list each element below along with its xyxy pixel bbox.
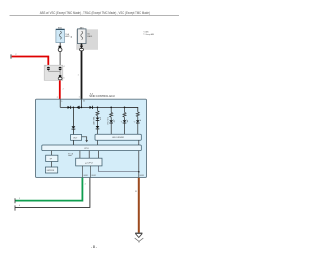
junction box internal wiring [48, 69, 60, 72]
svg-text:6: 6 [64, 77, 65, 79]
wire R red from page edge [10, 54, 12, 58]
svg-text:31: 31 [135, 191, 137, 193]
fuse F2 body [77, 29, 86, 44]
svg-text:LED DRIVER: LED DRIVER [112, 137, 125, 139]
CPU bar [42, 145, 142, 151]
svg-text:*1: *1 [121, 122, 123, 124]
svg-text:*2 : Except ABS: *2 : Except ABS [143, 33, 154, 36]
svg-text:4: 4 [64, 66, 65, 68]
connector below F2 [80, 46, 83, 49]
branch 3: LED [123, 120, 127, 122]
lead from pin 34 [80, 99, 82, 107]
gnd bus [99, 166, 139, 172]
svg-text:34: 34 [83, 101, 85, 103]
rail [60, 106, 138, 108]
diode D3 [90, 106, 93, 109]
svg-text:5: 5 [61, 101, 62, 103]
node n4 [110, 107, 112, 109]
branch 1: LED ABS warning light [96, 118, 100, 120]
svg-text:µ-CPU: µ-CPU [85, 163, 93, 165]
ground symbol [135, 232, 142, 234]
branch 4: LED [136, 120, 140, 122]
junction pin 1 [47, 67, 50, 70]
wire W-B thin [15, 178, 90, 208]
OUT box [71, 135, 82, 141]
LED driver box [95, 134, 141, 140]
node n3 [97, 107, 99, 109]
title rule [10, 15, 180, 17]
wire bar to IF box [51, 151, 53, 156]
svg-text:- 8 -: - 8 - [91, 245, 97, 249]
svg-text:SKID CONTROL ECU: SKID CONTROL ECU [89, 94, 115, 98]
svg-text:MAIN: MAIN [87, 35, 93, 38]
junction pin 2 [59, 67, 62, 70]
svg-text:GND1: GND1 [83, 175, 88, 177]
svg-text:VSC W/L: VSC W/L [108, 117, 110, 125]
svg-text:1: 1 [78, 74, 79, 76]
EEPROM box [45, 167, 57, 173]
svg-text:2: 2 [57, 97, 58, 99]
fuse F2 element [81, 31, 83, 39]
svg-text:*2: *2 [134, 122, 136, 124]
diode D2 [76, 106, 78, 109]
lead from pin 2 [59, 99, 61, 107]
branch 2: resistor R2 [110, 107, 112, 112]
OUT box output arrow [82, 137, 87, 141]
gnd pin leads [81, 166, 83, 178]
svg-text:AM2: AM2 [65, 35, 70, 38]
branch 1: diode D5 [97, 120, 99, 126]
svg-text:GND3: GND3 [139, 175, 144, 177]
svg-text:OUT: OUT [73, 138, 78, 140]
svg-text:4: 4 [85, 184, 86, 186]
junction box J1 [44, 65, 63, 80]
branch 1: resistor R1 [97, 107, 99, 110]
svg-text:GND2: GND2 [91, 175, 96, 177]
svg-text:2: 2 [15, 54, 16, 56]
svg-text:EEPROM: EEPROM [47, 170, 55, 172]
node n1 [73, 107, 75, 109]
diode D1 [68, 106, 71, 109]
wire connector to junction box [59, 51, 61, 67]
wires bar to sub cpu [79, 151, 81, 159]
relay panel (gray box) [76, 29, 98, 50]
svg-text:2: 2 [63, 89, 64, 91]
wire fuse F1 to connector [59, 43, 61, 46]
wire R red to ECU [59, 80, 61, 99]
diode D4 branch [72, 107, 74, 126]
connector below F1 [59, 46, 62, 49]
svg-text:4: 4 [19, 205, 21, 207]
fuse F1 element [60, 31, 62, 39]
wire G green [15, 178, 82, 201]
svg-text:1: 1 [45, 65, 46, 67]
junction pin 3 [59, 75, 61, 77]
LED driver to ground lead [138, 140, 140, 145]
sub cpu box [76, 158, 102, 166]
wire B black vertical [81, 51, 83, 100]
svg-text:CPU: CPU [84, 148, 89, 150]
svg-text:1: 1 [79, 97, 80, 99]
node n2 [81, 107, 83, 109]
svg-text:ST+B: ST+B [68, 153, 74, 155]
IF box [46, 155, 58, 161]
branch 4: resistor R4 [125, 107, 138, 112]
svg-text:ABS w/ VSC (Except TMC Made) ,: ABS w/ VSC (Except TMC Made) , TRAC (Exc… [40, 11, 150, 15]
branch 2: LED [109, 120, 113, 122]
branch 3: resistor R3 [124, 107, 126, 112]
svg-text:ABS W/L: ABS W/L [93, 115, 96, 124]
skid control ECU box [36, 99, 147, 177]
wire BR brown to ground [138, 178, 140, 233]
pointer mark left of fuse F2 [71, 36, 72, 37]
svg-text:*1 : ABS: *1 : ABS [143, 30, 149, 33]
fuse F1 body [56, 29, 65, 42]
node n5 [124, 107, 126, 109]
wire F2 to connector [81, 44, 83, 46]
